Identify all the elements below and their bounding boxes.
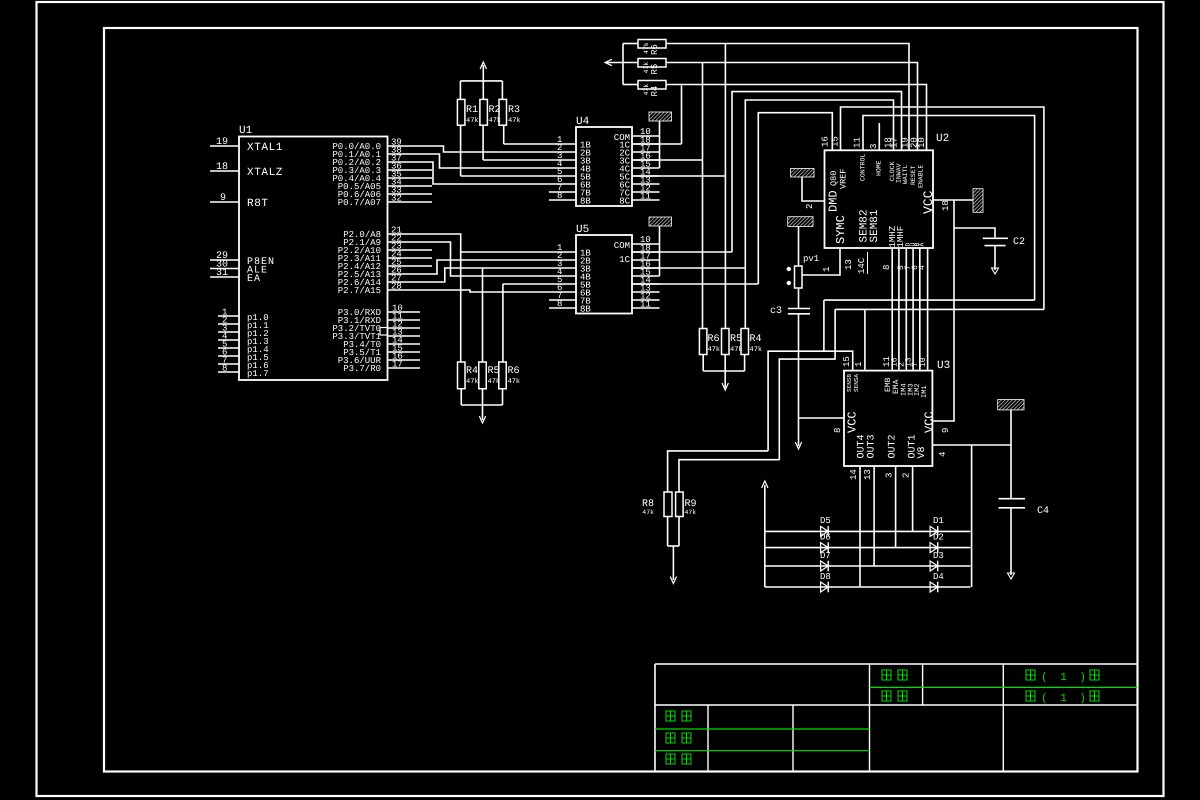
U2-U3 interconnect wires xyxy=(892,248,927,371)
svg-text:47k: 47k xyxy=(466,377,479,386)
svg-text:8: 8 xyxy=(222,364,227,374)
wire U4 row3 extension to R6mid riser xyxy=(632,159,703,161)
svg-text:17: 17 xyxy=(392,360,403,370)
U1 port1 pin labels p1.0-p1.7 xyxy=(247,313,269,379)
U1 left pin labels xyxy=(247,142,283,285)
svg-text:ENABLE: ENABLE xyxy=(918,164,925,188)
svg-text:A: A xyxy=(919,243,926,247)
U1 pin 30 ALE stub xyxy=(210,260,239,271)
svg-text:R3: R3 xyxy=(508,105,520,116)
svg-text:47k: 47k xyxy=(508,116,521,125)
U2 net label 14C xyxy=(857,252,868,274)
resistor R6 midleft xyxy=(499,362,520,389)
U3 internal top labels xyxy=(846,374,929,398)
wire R8 R9 bottom join xyxy=(668,517,679,581)
hatch power right of U2 xyxy=(973,189,983,213)
svg-text:14: 14 xyxy=(849,469,859,480)
wire hatch to U4 pin 15 row xyxy=(659,121,661,168)
U3 left pin 8 wire from c3 net xyxy=(799,417,845,419)
net U2 pin15 to right loop xyxy=(841,107,1044,309)
wire U4 row3 from R2 xyxy=(483,159,576,161)
svg-text:CONTROL: CONTROL xyxy=(860,154,867,181)
wire R6 mid top riser from R5top strand xyxy=(702,62,704,328)
U4 COM pin 10 stub xyxy=(632,127,660,137)
svg-text:( 1 ): ( 1 ) xyxy=(1041,672,1089,684)
svg-text:15: 15 xyxy=(842,356,852,367)
IC U1 body xyxy=(239,137,388,381)
U1 port1 pins 1-8 stubs xyxy=(218,308,239,374)
resistor R5 mid xyxy=(722,329,743,355)
svg-text:1: 1 xyxy=(854,362,864,367)
wire C4 to ground xyxy=(1010,508,1012,575)
wire right loop lower corner xyxy=(835,308,1044,310)
IC U5 body xyxy=(576,235,632,314)
svg-text:47k: 47k xyxy=(508,377,521,386)
svg-text:11: 11 xyxy=(640,192,651,202)
svg-text:47k: 47k xyxy=(642,509,654,516)
svg-text:18: 18 xyxy=(941,200,951,211)
ground triangle below C4 xyxy=(1008,573,1015,579)
capacitor c3 xyxy=(770,288,810,317)
svg-text:47k: 47k xyxy=(708,345,721,354)
wire c3 to ground arrow xyxy=(798,314,800,446)
resistor R2 xyxy=(480,99,501,125)
wire R1 bottom to U4 row5 xyxy=(460,125,462,176)
ground triangle below C2 xyxy=(992,268,999,274)
svg-text:31: 31 xyxy=(216,268,228,279)
arrow left of top trio xyxy=(605,59,612,65)
svg-text:SENSB: SENSB xyxy=(846,374,853,392)
U4 right pin labels 1C-8C xyxy=(619,141,630,207)
resistor R3 xyxy=(499,99,521,125)
wire VCC rail down to U3 pin 9 xyxy=(932,200,954,421)
net R6 to U2 pin19 xyxy=(666,44,909,151)
svg-text:p1.7: p1.7 xyxy=(247,369,269,379)
svg-text:D8: D8 xyxy=(820,572,831,582)
wire P0.2 to U4 row6 xyxy=(432,162,576,184)
no-connect hatch above U4 xyxy=(649,112,672,121)
U4 left pin labels 1B-8B xyxy=(580,141,591,207)
svg-text:17: 17 xyxy=(890,137,900,148)
wire C2 to ground xyxy=(994,246,996,270)
ground arrow below mid trio xyxy=(722,383,728,390)
svg-text:V8: V8 xyxy=(917,446,928,458)
net U5 row18 riser to U2 pin17 xyxy=(732,92,902,252)
svg-text:( 1 ): ( 1 ) xyxy=(1041,693,1089,705)
svg-text:COM: COM xyxy=(614,241,630,251)
svg-text:R6: R6 xyxy=(708,334,720,345)
wire R9 top lead xyxy=(679,460,779,492)
hatch ground left of U2 xyxy=(791,169,814,178)
U1 pin 31 EA stub xyxy=(210,268,239,279)
svg-text:D4: D4 xyxy=(933,572,944,582)
wire top trio left bus xyxy=(605,44,638,85)
capacitor C2 xyxy=(983,237,1025,248)
wire R1-R3 top rail xyxy=(460,65,502,99)
small pad box on U1 pin 12 row xyxy=(380,328,388,336)
wire U4 row8 stub xyxy=(549,199,576,201)
wire R2 bottom to U4 row3 xyxy=(482,125,484,160)
wire P0.0 to U4 row2 xyxy=(432,146,576,152)
wire U3 sense pin riser A xyxy=(824,351,853,370)
svg-text:14C: 14C xyxy=(857,257,867,274)
svg-text:SYMC: SYMC xyxy=(834,215,848,244)
wire U3 pin 14 to D8 row xyxy=(859,466,861,587)
diode row D8/D4 wire xyxy=(765,586,971,588)
svg-text:3: 3 xyxy=(885,473,895,478)
diode D1 xyxy=(930,526,938,537)
svg-text:R4: R4 xyxy=(466,366,478,377)
diode row D7/D3 wire xyxy=(765,565,971,567)
hatch power above C4 xyxy=(998,400,1024,410)
title text material label xyxy=(882,670,891,680)
svg-text:8C: 8C xyxy=(619,197,630,207)
svg-text:Q80: Q80 xyxy=(829,171,839,186)
diode D7 xyxy=(821,561,829,572)
wire U3 sense pin riser B xyxy=(864,309,866,370)
svg-text:SEM81: SEM81 xyxy=(869,209,881,242)
svg-text:4: 4 xyxy=(938,452,948,457)
svg-text:13: 13 xyxy=(844,259,854,270)
svg-text:IM1: IM1 xyxy=(921,385,929,398)
svg-text:P2.7/A15: P2.7/A15 xyxy=(338,286,381,296)
title text scale label xyxy=(882,691,891,701)
U5 COM pin 10 stub xyxy=(632,235,660,245)
svg-text:R5: R5 xyxy=(730,334,742,345)
VCC arrow above R2 xyxy=(480,62,486,69)
resistor R4 midleft xyxy=(458,362,479,389)
svg-text:4: 4 xyxy=(918,265,927,270)
wire U5 row18 extension xyxy=(632,251,732,253)
title text designed-by label xyxy=(666,711,675,721)
svg-text:R5: R5 xyxy=(650,64,660,75)
svg-text:SENSA: SENSA xyxy=(853,374,860,392)
svg-text:P0.7/A07: P0.7/A07 xyxy=(338,198,381,208)
svg-text:U5: U5 xyxy=(576,224,589,236)
diode D3 xyxy=(930,561,938,572)
svg-text:DMD: DMD xyxy=(827,190,841,212)
svg-text:8: 8 xyxy=(882,265,892,270)
wire U5 pin 14 row net 14C xyxy=(632,283,758,285)
svg-text:VCC: VCC xyxy=(923,411,937,433)
svg-text:8: 8 xyxy=(557,191,562,201)
U3 top pin numbers row xyxy=(882,356,928,367)
svg-text:OUT2: OUT2 xyxy=(888,434,899,458)
svg-text:18: 18 xyxy=(216,162,228,173)
wire R8 top lead xyxy=(668,451,769,492)
U1 port2 pins 21-28 stubs xyxy=(388,226,433,292)
wire hatch to U5 pin 15 row xyxy=(659,226,661,276)
wire U2 VCC pin 18 to hatch xyxy=(933,199,973,201)
wire R5 mid top riser from R6top strand xyxy=(724,44,726,329)
wire U4 row7 stub xyxy=(549,191,576,193)
U2 internal bottom single letters xyxy=(905,243,926,247)
title text drawn-by label xyxy=(666,733,675,743)
diode D4 xyxy=(930,582,938,593)
title text checked-by label xyxy=(666,754,675,764)
svg-text:OUT3: OUT3 xyxy=(867,434,878,458)
net U2 pin11 right loop xyxy=(863,116,1035,301)
svg-text:11: 11 xyxy=(853,137,863,148)
wire U4 row1 extension xyxy=(632,143,682,145)
svg-text:8B: 8B xyxy=(580,305,591,315)
wire U4 row1 from R3 xyxy=(504,143,576,145)
svg-text:R1: R1 xyxy=(466,105,478,116)
diode D8 xyxy=(821,582,829,593)
svg-text:WAITL: WAITL xyxy=(902,164,909,184)
svg-text:9: 9 xyxy=(941,428,951,433)
svg-text:RESET: RESET xyxy=(910,165,917,185)
svg-text:1: 1 xyxy=(822,267,832,272)
svg-text:C2: C2 xyxy=(1013,237,1025,248)
U4 left pins 1-8 stubs xyxy=(557,135,562,201)
svg-text:10: 10 xyxy=(919,357,928,367)
svg-text:11: 11 xyxy=(640,300,651,310)
U3 internal labels OUT4-OUT1 xyxy=(857,434,929,458)
arrow above diode left bus xyxy=(762,481,768,488)
svg-text:D1: D1 xyxy=(933,516,944,526)
svg-text:D7: D7 xyxy=(820,551,831,561)
wire U3 pin 2 to D5 row xyxy=(912,466,914,531)
resistor R4 mid xyxy=(741,329,762,355)
diode right bus from U3 pin 4 xyxy=(971,445,973,587)
wire hatch to pv1 xyxy=(798,226,800,266)
diode D2 xyxy=(930,542,938,553)
wire U3 pin 13 to D7 row xyxy=(873,466,875,566)
U4 right pins 18-11 stubs xyxy=(632,136,660,202)
U1 pin 9 RST stub xyxy=(210,193,239,204)
wire midleft trio bottom join xyxy=(461,389,502,420)
resistor R9 xyxy=(676,492,697,517)
wire pv1 to U2 pin 13 xyxy=(802,248,840,275)
resistor R6 mid xyxy=(699,329,720,355)
wire hatch through pin4 line to C4 xyxy=(1010,410,1012,499)
resistor R6 top xyxy=(638,40,666,56)
switch pv1 body xyxy=(795,266,803,288)
U1 pin 19 XTAL1 stub xyxy=(210,137,239,148)
ground arrow below R8 R9 xyxy=(670,577,676,584)
svg-text:32: 32 xyxy=(391,194,402,204)
IC U4 body xyxy=(576,127,632,206)
svg-text:D5: D5 xyxy=(820,516,831,526)
U1 port0 pins 39-32 stubs xyxy=(388,138,433,204)
svg-text:13: 13 xyxy=(863,469,873,480)
svg-text:D6: D6 xyxy=(820,533,831,543)
U1 port0 pin labels P0.0/A00-P0.7/A07 xyxy=(332,142,381,208)
diode D6 xyxy=(821,542,829,553)
svg-text:pv1: pv1 xyxy=(803,254,819,264)
wire R5 midleft riser to U5 row3 xyxy=(482,268,484,362)
resistor R5 midleft xyxy=(479,362,500,389)
svg-text:8: 8 xyxy=(833,428,843,433)
svg-text:D3: D3 xyxy=(933,551,944,561)
svg-text:47k: 47k xyxy=(685,509,697,516)
resistor R5 top xyxy=(638,59,666,75)
U2 bottom pin numbers xyxy=(882,265,927,270)
wire U3 pin 3 to D6 row xyxy=(895,466,897,548)
U2 internal top labels xyxy=(829,154,925,189)
svg-text:2: 2 xyxy=(805,204,815,209)
title block outline xyxy=(655,664,1138,772)
hatch ground above pv1 xyxy=(788,217,813,227)
diode row bus left with VCC arrow xyxy=(764,485,766,587)
svg-text:VREF: VREF xyxy=(839,169,849,189)
svg-text:8: 8 xyxy=(557,299,562,309)
wire right loop upper corner xyxy=(824,299,1035,301)
wire U4 row1 riser from R4top strand xyxy=(681,86,683,144)
svg-text:R4: R4 xyxy=(750,334,762,345)
IC U3 body xyxy=(844,371,932,466)
U1 pin 18 XTALZ stub xyxy=(210,162,239,173)
wire mid trio bottom join xyxy=(703,355,744,388)
wire R8 staircase net xyxy=(768,300,824,451)
wire R4 midleft riser to U5 row1 xyxy=(460,252,462,362)
svg-text:U3: U3 xyxy=(937,360,950,372)
svg-text:28: 28 xyxy=(391,282,402,292)
title text total sheets (1) xyxy=(1026,691,1099,705)
svg-text:1C: 1C xyxy=(619,255,630,265)
net R4mid riser to U2 pin18 xyxy=(745,100,893,329)
U3 right pin 4 wire xyxy=(932,444,1011,446)
ground arrow below midleft trio xyxy=(479,416,485,423)
svg-text:15: 15 xyxy=(831,136,841,147)
diode row D5/D1 wire xyxy=(765,530,971,532)
diode row D6/D2 wire xyxy=(765,547,971,549)
svg-text:3: 3 xyxy=(869,144,879,149)
svg-text:R6: R6 xyxy=(650,44,660,55)
svg-text:16: 16 xyxy=(821,136,831,147)
U5 right pins 18-11 stubs xyxy=(632,244,660,310)
P2 to U5 bus wires xyxy=(432,234,576,308)
U5 left pin labels 1B-8B xyxy=(580,249,591,315)
svg-text:47k: 47k xyxy=(750,345,763,354)
svg-text:8B: 8B xyxy=(580,197,591,207)
svg-text:10: 10 xyxy=(917,137,927,148)
svg-text:47k: 47k xyxy=(643,84,650,96)
resistor R4 top xyxy=(638,81,666,97)
wire rail to C2 xyxy=(954,228,995,238)
U1 port3 pins 10-17 stubs xyxy=(388,304,421,370)
svg-text:19: 19 xyxy=(216,137,228,148)
svg-text:XTALZ: XTALZ xyxy=(247,167,283,179)
wire U5 row16 extension to riser xyxy=(632,267,745,269)
svg-text:HOME: HOME xyxy=(876,160,883,176)
wire U4 row5 from R1 xyxy=(461,175,576,177)
wire U2 pin3 stub xyxy=(878,123,880,150)
net R4 to U2 pin10 xyxy=(666,85,927,151)
svg-text:C4: C4 xyxy=(1037,506,1049,517)
wire P0.1 to U4 row4 xyxy=(432,154,576,168)
wire hatch to U2 pin 2 xyxy=(802,177,825,201)
wire U4 row5 extension to R5mid riser xyxy=(632,175,725,177)
wire R9 staircase net xyxy=(779,309,835,459)
U1 port3 pin labels P3.0/RXD-P3.7/RD xyxy=(332,308,381,374)
svg-text:47k: 47k xyxy=(643,42,650,54)
wire R3 bottom to U4 row1 xyxy=(503,125,505,144)
title block green separator lines xyxy=(655,687,1138,750)
svg-text:EA: EA xyxy=(247,274,261,285)
U1 port2 pin labels P2.0/A8-P2.7/A15 xyxy=(338,230,381,296)
svg-text:2: 2 xyxy=(902,473,912,478)
svg-text:R6: R6 xyxy=(508,366,520,377)
svg-text:9: 9 xyxy=(220,193,226,204)
U5 left pins 1-8 numbers xyxy=(557,243,562,309)
ground arrow below c3 xyxy=(795,442,801,449)
U1 pin 29 PSEN stub xyxy=(210,251,239,262)
resistor R1 xyxy=(457,99,478,125)
pv1 contact dots xyxy=(787,267,791,271)
svg-text:VCC: VCC xyxy=(921,190,936,214)
IC U2 body xyxy=(825,150,934,248)
svg-text:XTAL1: XTAL1 xyxy=(247,142,283,154)
svg-text:R5: R5 xyxy=(488,366,500,377)
svg-text:VCC: VCC xyxy=(846,411,860,433)
svg-text:U1: U1 xyxy=(239,125,253,137)
svg-text:R8T: R8T xyxy=(247,198,269,210)
svg-text:U2: U2 xyxy=(936,133,949,145)
svg-text:U4: U4 xyxy=(576,116,590,128)
resistor R8 xyxy=(642,492,672,517)
svg-text:47k: 47k xyxy=(466,116,479,125)
net R5 to U2 pin20 xyxy=(666,63,918,151)
capacitor C4 xyxy=(999,499,1050,517)
svg-text:c3: c3 xyxy=(770,306,782,317)
diode D5 xyxy=(821,526,829,537)
svg-text:P3.7/R0: P3.7/R0 xyxy=(343,364,381,374)
svg-text:D2: D2 xyxy=(933,533,944,543)
svg-text:47k: 47k xyxy=(643,62,650,74)
title text sheet number (1) xyxy=(1026,670,1099,684)
wire R6 midleft riser to U5 row5 xyxy=(502,284,504,362)
net U5 row14 riser to U2 pin16 xyxy=(758,113,832,284)
no-connect hatch above U5 xyxy=(649,217,672,226)
svg-text:R4: R4 xyxy=(650,86,660,97)
